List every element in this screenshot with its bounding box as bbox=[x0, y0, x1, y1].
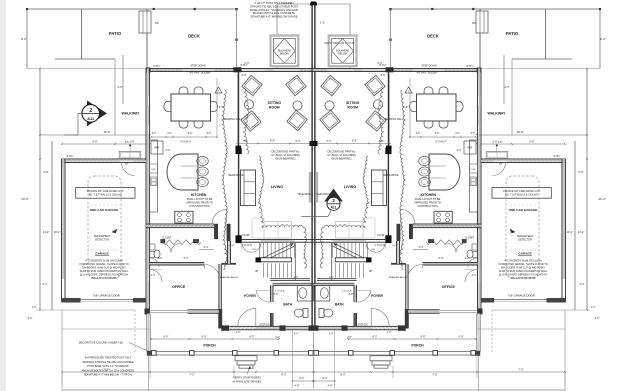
svg-text:6'-0": 6'-0" bbox=[459, 336, 464, 339]
svg-text:WALL AT O/H DOORS: WALL AT O/H DOORS bbox=[91, 277, 116, 280]
svg-text:BEARING WALL: BEARING WALL bbox=[385, 118, 404, 121]
svg-text:OFFICE: OFFICE bbox=[172, 285, 186, 289]
svg-text:1'-6"x4'-8": 1'-6"x4'-8" bbox=[375, 244, 386, 247]
svg-text:9'-4": 9'-4" bbox=[219, 105, 224, 109]
svg-text:9'-2": 9'-2" bbox=[21, 37, 27, 41]
svg-text:DETECTOR: DETECTOR bbox=[95, 239, 109, 242]
svg-text:5'-0": 5'-0" bbox=[152, 133, 157, 135]
svg-text:5'-4": 5'-4" bbox=[419, 246, 424, 249]
svg-text:PATIO: PATIO bbox=[109, 31, 122, 36]
svg-text:KITCHEN: KITCHEN bbox=[421, 193, 437, 197]
svg-text:7'x8' GARAGE DOOR: 7'x8' GARAGE DOOR bbox=[507, 294, 535, 298]
svg-text:CONSTRUCTION: CONSTRUCTION bbox=[417, 205, 437, 208]
svg-text:ROOM: ROOM bbox=[347, 105, 358, 109]
svg-text:5'-0"x8'-0": 5'-0"x8'-0" bbox=[181, 141, 192, 144]
svg-text:POST BASE WITH A 1" STANDOFF: POST BASE WITH A 1" STANDOFF bbox=[87, 364, 129, 368]
svg-text:ROOM: ROOM bbox=[269, 105, 280, 109]
svg-text:DN: DN bbox=[472, 22, 476, 25]
svg-text:3'-2": 3'-2" bbox=[28, 317, 33, 320]
svg-text:BEAM ABOVE: BEAM ABOVE bbox=[384, 174, 399, 177]
svg-text:LIVING: LIVING bbox=[344, 185, 356, 189]
svg-text:5'-0": 5'-0" bbox=[296, 140, 301, 143]
svg-text:3'-2": 3'-2" bbox=[595, 317, 600, 320]
svg-text:5'-0": 5'-0" bbox=[471, 133, 476, 135]
svg-text:STEP DN: STEP DN bbox=[358, 324, 368, 326]
svg-text:5'-6": 5'-6" bbox=[578, 170, 583, 174]
svg-text:2'-6": 2'-6" bbox=[416, 133, 421, 135]
svg-text:UP: UP bbox=[369, 270, 373, 273]
svg-text:5'-0": 5'-0" bbox=[274, 294, 279, 296]
svg-text:ONE CAR GARAGE: ONE CAR GARAGE bbox=[509, 208, 538, 212]
svg-text:9'-2": 9'-2" bbox=[300, 377, 305, 380]
svg-text:DECORATIVE COLUMN UNDER T&D: DECORATIVE COLUMN UNDER T&D bbox=[79, 341, 124, 345]
svg-text:DN: DN bbox=[252, 249, 256, 251]
svg-text:4'-0": 4'-0" bbox=[167, 133, 172, 135]
svg-text:2'-6": 2'-6" bbox=[207, 133, 212, 135]
svg-text:6'-0": 6'-0" bbox=[439, 257, 444, 260]
svg-text:BEARING WALL: BEARING WALL bbox=[224, 118, 243, 121]
svg-text:4'-0": 4'-0" bbox=[117, 85, 122, 89]
svg-text:5'-0": 5'-0" bbox=[243, 140, 248, 143]
svg-text:4'-8": 4'-8" bbox=[328, 385, 333, 388]
svg-text:BELOW: BELOW bbox=[280, 53, 289, 56]
svg-text:2'-4": 2'-4" bbox=[472, 274, 477, 277]
svg-text:16'-6": 16'-6" bbox=[516, 130, 523, 134]
svg-text:4'-0": 4'-0" bbox=[455, 133, 460, 135]
svg-text:4'0"x4'8" SLIDER: 4'0"x4'8" SLIDER bbox=[417, 71, 438, 75]
svg-text:4'-0": 4'-0" bbox=[347, 337, 352, 339]
svg-text:5'-0": 5'-0" bbox=[379, 140, 384, 143]
svg-text:44'-0": 44'-0" bbox=[21, 197, 29, 201]
svg-text:5'-6": 5'-6" bbox=[43, 170, 48, 174]
svg-text:5'-6": 5'-6" bbox=[529, 140, 534, 144]
svg-text:(NON-BEARING): (NON-BEARING) bbox=[331, 157, 351, 161]
svg-text:DECK: DECK bbox=[427, 34, 439, 39]
svg-text:2: 2 bbox=[89, 108, 92, 114]
svg-text:6'-0": 6'-0" bbox=[381, 74, 386, 77]
svg-text:1'-6": 1'-6" bbox=[498, 142, 503, 144]
svg-text:2 LB. FT. POST ON A TAPERED: 2 LB. FT. POST ON A TAPERED bbox=[255, 1, 294, 5]
svg-text:14'-2": 14'-2" bbox=[578, 230, 585, 234]
svg-text:7'-2": 7'-2" bbox=[432, 373, 437, 377]
svg-text:1'-6"x4'-8": 1'-6"x4'-8" bbox=[342, 291, 352, 293]
svg-text:1'-2": 1'-2" bbox=[387, 331, 392, 334]
svg-text:1'-6": 1'-6" bbox=[329, 277, 334, 279]
svg-text:HT. WALL w/ COLUMNS: HT. WALL w/ COLUMNS bbox=[327, 153, 356, 157]
svg-text:FOYER: FOYER bbox=[244, 294, 256, 298]
svg-text:DECORATIVE PARTIAL: DECORATIVE PARTIAL bbox=[272, 150, 301, 154]
svg-text:6'-0": 6'-0" bbox=[202, 336, 207, 339]
svg-text:9'-2": 9'-2" bbox=[600, 37, 606, 41]
svg-text:GARAGE: GARAGE bbox=[518, 252, 531, 256]
svg-text:DN: DN bbox=[155, 22, 159, 25]
svg-text:CLOSET: CLOSET bbox=[162, 237, 172, 239]
svg-text:PARTY WALL (2F TO 8'-0"): PARTY WALL (2F TO 8'-0") bbox=[325, 42, 356, 45]
svg-text:8'-9½": 8'-9½" bbox=[153, 64, 160, 68]
svg-text:SIMPSON STRONG TIE ABU ADJUSTA: SIMPSON STRONG TIE ABU ADJUSTABLE bbox=[82, 360, 134, 364]
svg-text:5'-0": 5'-0" bbox=[435, 133, 440, 135]
svg-text:3'-0": 3'-0" bbox=[294, 334, 299, 336]
svg-text:9'-2": 9'-2" bbox=[281, 373, 286, 377]
svg-text:STRONG TIE ABU ADJUSTABLE POST: STRONG TIE ABU ADJUSTABLE POST bbox=[250, 4, 299, 8]
svg-text:5'-0": 5'-0" bbox=[327, 140, 332, 143]
svg-text:SONATUBE 4'-0" MIN BELOW GRADE: SONATUBE 4'-0" MIN BELOW GRADE bbox=[250, 15, 297, 19]
svg-text:WALL AT O/H DOORS: WALL AT O/H DOORS bbox=[510, 277, 535, 280]
svg-text:6'-0": 6'-0" bbox=[164, 336, 169, 339]
svg-text:BASE WITH A 1" STANDOFF ANCHOR: BASE WITH A 1" STANDOFF ANCHOR bbox=[250, 8, 298, 12]
svg-text:A11: A11 bbox=[87, 116, 95, 121]
svg-text:6'-2": 6'-2" bbox=[250, 336, 255, 339]
svg-text:4'-0": 4'-0" bbox=[465, 257, 470, 260]
svg-text:DN: DN bbox=[499, 164, 503, 166]
svg-text:6'-0": 6'-0" bbox=[421, 336, 426, 339]
svg-text:1'-0": 1'-0" bbox=[591, 306, 596, 309]
svg-text:4'-0": 4'-0" bbox=[166, 149, 171, 152]
svg-text:6'-0": 6'-0" bbox=[378, 62, 383, 65]
svg-text:STEP DOWN: STEP DOWN bbox=[421, 65, 436, 68]
svg-text:SONATUBE 4'-0" MIN BELOW - TYP: SONATUBE 4'-0" MIN BELOW - TYPICAL bbox=[84, 373, 133, 377]
svg-text:5'-4": 5'-4" bbox=[43, 283, 48, 286]
svg-text:9'-4": 9'-4" bbox=[403, 105, 408, 109]
svg-text:1'-0": 1'-0" bbox=[32, 306, 37, 309]
svg-text:1'-6": 1'-6" bbox=[294, 277, 299, 279]
svg-text:16'-6": 16'-6" bbox=[103, 130, 110, 134]
svg-text:PORCH: PORCH bbox=[203, 344, 216, 348]
svg-text:w/ FINAL SITE GRADES: w/ FINAL SITE GRADES bbox=[233, 379, 262, 383]
svg-text:6'-2": 6'-2" bbox=[373, 336, 378, 339]
svg-text:9'-2": 9'-2" bbox=[323, 377, 328, 380]
svg-text:STEP DOWN: STEP DOWN bbox=[190, 65, 205, 68]
svg-text:1'-2": 1'-2" bbox=[236, 331, 241, 334]
svg-text:7'-2": 7'-2" bbox=[518, 368, 523, 372]
svg-text:REF: REF bbox=[468, 147, 473, 150]
svg-text:5'-0": 5'-0" bbox=[188, 133, 193, 135]
svg-text:4'0"x4'8" SLIDER: 4'0"x4'8" SLIDER bbox=[190, 71, 211, 75]
svg-text:BEAM AB. ABOVE: BEAM AB. ABOVE bbox=[389, 276, 408, 279]
svg-text:5'-4": 5'-4" bbox=[204, 246, 209, 249]
svg-text:A11: A11 bbox=[330, 206, 336, 210]
svg-text:8'-9½": 8'-9½" bbox=[554, 154, 561, 158]
svg-text:REF: REF bbox=[155, 147, 160, 150]
svg-text:FOYER: FOYER bbox=[371, 294, 383, 298]
svg-text:14'x48": 14'x48" bbox=[242, 235, 250, 237]
svg-text:(NON-BEARING): (NON-BEARING) bbox=[275, 157, 295, 161]
svg-text:2'-4": 2'-4" bbox=[151, 274, 156, 277]
svg-text:ANCHOR BOLTED INTO A 10"ø CONC: ANCHOR BOLTED INTO A 10"ø CONCRETE bbox=[82, 368, 135, 372]
svg-text:5'-6": 5'-6" bbox=[92, 140, 97, 144]
svg-text:6'-0": 6'-0" bbox=[242, 74, 247, 77]
svg-text:4x4 PRESSURE TREATED POST ON A: 4x4 PRESSURE TREATED POST ON A bbox=[85, 356, 132, 360]
svg-text:HT. WALL w/ COLUMNS: HT. WALL w/ COLUMNS bbox=[271, 153, 300, 157]
svg-text:CONSTRUCTION: CONSTRUCTION bbox=[189, 205, 209, 208]
svg-text:14'x48": 14'x48" bbox=[377, 235, 385, 237]
svg-text:5'-0": 5'-0" bbox=[349, 294, 354, 296]
svg-text:4'-0": 4'-0" bbox=[275, 337, 280, 339]
svg-text:3: 3 bbox=[332, 198, 335, 203]
svg-text:8'-9½": 8'-9½" bbox=[466, 64, 473, 68]
svg-text:STEP DN: STEP DN bbox=[260, 324, 270, 326]
svg-text:ONE CAR GARAGE: ONE CAR GARAGE bbox=[90, 208, 119, 212]
svg-text:19'-2": 19'-2" bbox=[54, 230, 61, 234]
svg-text:UP: UP bbox=[255, 270, 259, 273]
svg-text:7'-2": 7'-2" bbox=[189, 373, 194, 377]
svg-text:14'-2": 14'-2" bbox=[43, 230, 50, 234]
svg-text:WALKWAY: WALKWAY bbox=[488, 112, 507, 116]
svg-text:DETECTOR: DETECTOR bbox=[518, 239, 532, 242]
svg-text:1'-6"x4'-8": 1'-6"x4'-8" bbox=[275, 291, 285, 293]
svg-text:PATIO: PATIO bbox=[506, 31, 519, 36]
svg-text:8'-0": 8'-0" bbox=[352, 140, 357, 143]
svg-text:6'-0": 6'-0" bbox=[245, 62, 250, 65]
svg-text:6'-0": 6'-0" bbox=[184, 257, 189, 260]
svg-text:CLOSET: CLOSET bbox=[465, 237, 475, 239]
svg-text:44'-0": 44'-0" bbox=[598, 197, 606, 201]
svg-text:5'-4": 5'-4" bbox=[580, 283, 585, 286]
svg-text:OFFICE: OFFICE bbox=[442, 285, 456, 289]
svg-text:9'-2": 9'-2" bbox=[340, 373, 345, 377]
svg-text:DN: DN bbox=[371, 249, 375, 251]
svg-text:BOLTED INTO A 10"ø CONCRETE: BOLTED INTO A 10"ø CONCRETE bbox=[253, 11, 295, 15]
svg-text:10'-0": 10'-0" bbox=[392, 245, 398, 247]
svg-text:1'-6": 1'-6" bbox=[129, 140, 134, 144]
svg-text:DECK: DECK bbox=[188, 34, 200, 39]
svg-text:4'-0": 4'-0" bbox=[504, 85, 509, 89]
svg-text:TELEVISION: TELEVISION bbox=[298, 194, 312, 196]
svg-text:4'-0": 4'-0" bbox=[457, 149, 462, 152]
svg-text:BATH: BATH bbox=[283, 303, 292, 307]
svg-text:BEAM AB. ABOVE: BEAM AB. ABOVE bbox=[220, 276, 239, 279]
svg-text:DECORATIVE PARTIAL: DECORATIVE PARTIAL bbox=[328, 150, 357, 154]
svg-text:4'-0": 4'-0" bbox=[158, 257, 163, 260]
svg-text:VERIFY STAIR RISERS: VERIFY STAIR RISERS bbox=[233, 376, 261, 380]
svg-text:BELOW: BELOW bbox=[338, 53, 347, 56]
svg-text:LIVING: LIVING bbox=[271, 185, 283, 189]
svg-text:BD. T & P WALLS & CEILING: BD. T & P WALLS & CEILING bbox=[89, 194, 122, 197]
svg-text:3'-0": 3'-0" bbox=[329, 334, 334, 336]
svg-text:BATH: BATH bbox=[335, 303, 344, 307]
svg-text:BD. T & P WALLS & CEILING: BD. T & P WALLS & CEILING bbox=[505, 194, 538, 197]
svg-text:BEAM ABOVE: BEAM ABOVE bbox=[229, 174, 244, 177]
svg-text:1'-0": 1'-0" bbox=[320, 22, 325, 25]
svg-text:1'-6"x4'-8": 1'-6"x4'-8" bbox=[242, 244, 253, 247]
svg-text:GARAGE: GARAGE bbox=[95, 252, 108, 256]
svg-text:1'-6": 1'-6" bbox=[125, 142, 130, 144]
svg-text:10'-0": 10'-0" bbox=[229, 245, 235, 247]
svg-text:8'-0": 8'-0" bbox=[270, 140, 275, 143]
svg-text:DN: DN bbox=[125, 164, 129, 166]
svg-text:TELEVISION: TELEVISION bbox=[316, 194, 330, 196]
svg-text:19'-2": 19'-2" bbox=[567, 230, 574, 234]
svg-text:5'-0"x8'-0": 5'-0"x8'-0" bbox=[436, 141, 447, 144]
svg-text:4'-8": 4'-8" bbox=[295, 385, 300, 388]
svg-text:WALKWAY: WALKWAY bbox=[122, 112, 141, 116]
svg-text:KITCHEN: KITCHEN bbox=[191, 193, 207, 197]
svg-text:PORCH: PORCH bbox=[411, 344, 424, 348]
svg-text:7'x8' GARAGE DOOR: 7'x8' GARAGE DOOR bbox=[92, 294, 120, 298]
svg-text:8'-9½": 8'-9½" bbox=[67, 154, 74, 158]
